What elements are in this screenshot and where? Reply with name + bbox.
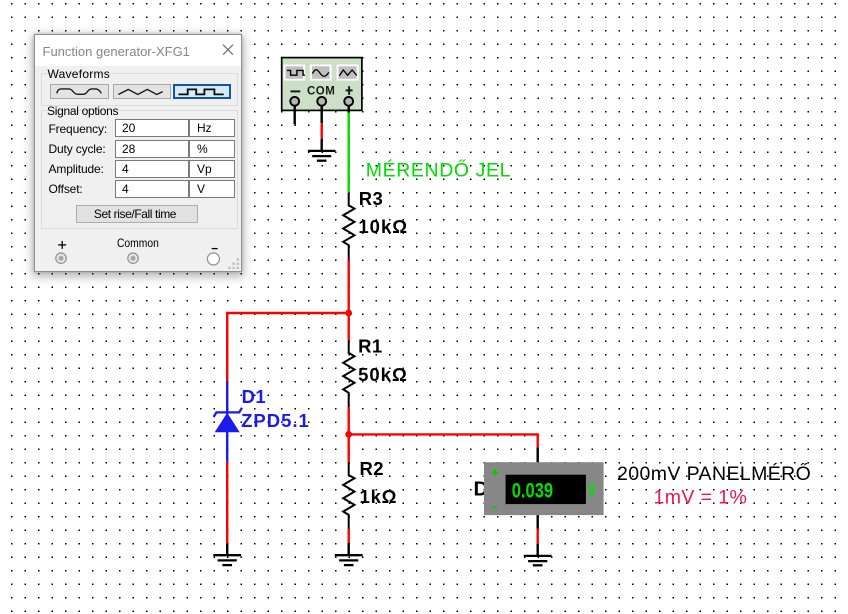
- waveforms groupbox: [41, 73, 238, 106]
- frequency row: [49, 122, 108, 136]
- svg-text:200mV PANELMÉRŐ: 200mV PANELMÉRŐ: [617, 462, 811, 485]
- svg-text:1mV = 1%: 1mV = 1%: [654, 487, 748, 509]
- svg-text:MÉRENDŐ JEL: MÉRENDŐ JEL: [366, 158, 511, 181]
- signal options groupbox: [41, 110, 238, 229]
- offset row: [49, 182, 83, 196]
- svg-text:10kΩ: 10kΩ: [358, 216, 408, 237]
- wire XFG1 plus lead: [348, 105, 350, 113]
- duty cycle row: [49, 142, 106, 156]
- node B junction: [345, 431, 352, 438]
- wire node A to D1 (red): [227, 313, 349, 381]
- wire meter to ground (red): [537, 529, 539, 544]
- resistor R2: [343, 463, 354, 530]
- function generator XFG1: [282, 58, 362, 111]
- wire R1 to node B (red): [348, 407, 350, 434]
- wire XFG1 COM lead: [321, 105, 323, 123]
- panel meter bottom pin: [537, 515, 539, 528]
- svg-text:50kΩ: 50kΩ: [358, 364, 408, 385]
- svg-text:V: V: [588, 477, 596, 502]
- wire R2 to ground (red): [348, 529, 350, 543]
- terminals row: [35, 230, 241, 270]
- sine wave button: [50, 84, 109, 99]
- wire net MERENDO JEL (green): [348, 113, 350, 193]
- wire XFG1 minus stub: [294, 105, 296, 124]
- svg-text:R2: R2: [360, 458, 384, 479]
- node A junction: [345, 310, 352, 317]
- panel meter top pin: [537, 447, 539, 462]
- ground GND4: [524, 544, 552, 565]
- resistor R1: [343, 340, 354, 407]
- close button X: [222, 44, 234, 56]
- function generator dialog XFG1: [34, 34, 242, 272]
- set rise/fall button: [76, 205, 198, 223]
- ground GND3: [335, 543, 363, 565]
- wire D1 to ground (red): [226, 462, 228, 544]
- svg-text:Common: Common: [117, 237, 159, 250]
- triangle wave button: [113, 84, 172, 99]
- resistor R3: [343, 193, 354, 260]
- square wave button (selected): [173, 84, 230, 99]
- svg-text:0.039: 0.039: [512, 479, 553, 503]
- wire node B to panel meter (red): [349, 434, 538, 447]
- resize grip: [228, 258, 240, 270]
- ground GND1: [308, 139, 336, 161]
- panel meter DPM: [484, 462, 604, 515]
- svg-text:R3: R3: [359, 188, 383, 209]
- svg-text:D1: D1: [242, 386, 266, 407]
- ground GND2: [213, 544, 241, 566]
- zener diode D1: [214, 381, 242, 461]
- wire node A to R1 (red): [348, 313, 350, 340]
- svg-text:COM: COM: [307, 85, 335, 97]
- svg-text:1kΩ: 1kΩ: [360, 486, 398, 507]
- wire COM to ground (red): [321, 123, 323, 139]
- wire node B to R2 (red): [348, 434, 350, 462]
- svg-text:R1: R1: [358, 336, 382, 357]
- amplitude row: [49, 162, 104, 176]
- svg-text:ZPD5.1: ZPD5.1: [241, 410, 310, 431]
- wire R3 to node A (red): [348, 260, 350, 313]
